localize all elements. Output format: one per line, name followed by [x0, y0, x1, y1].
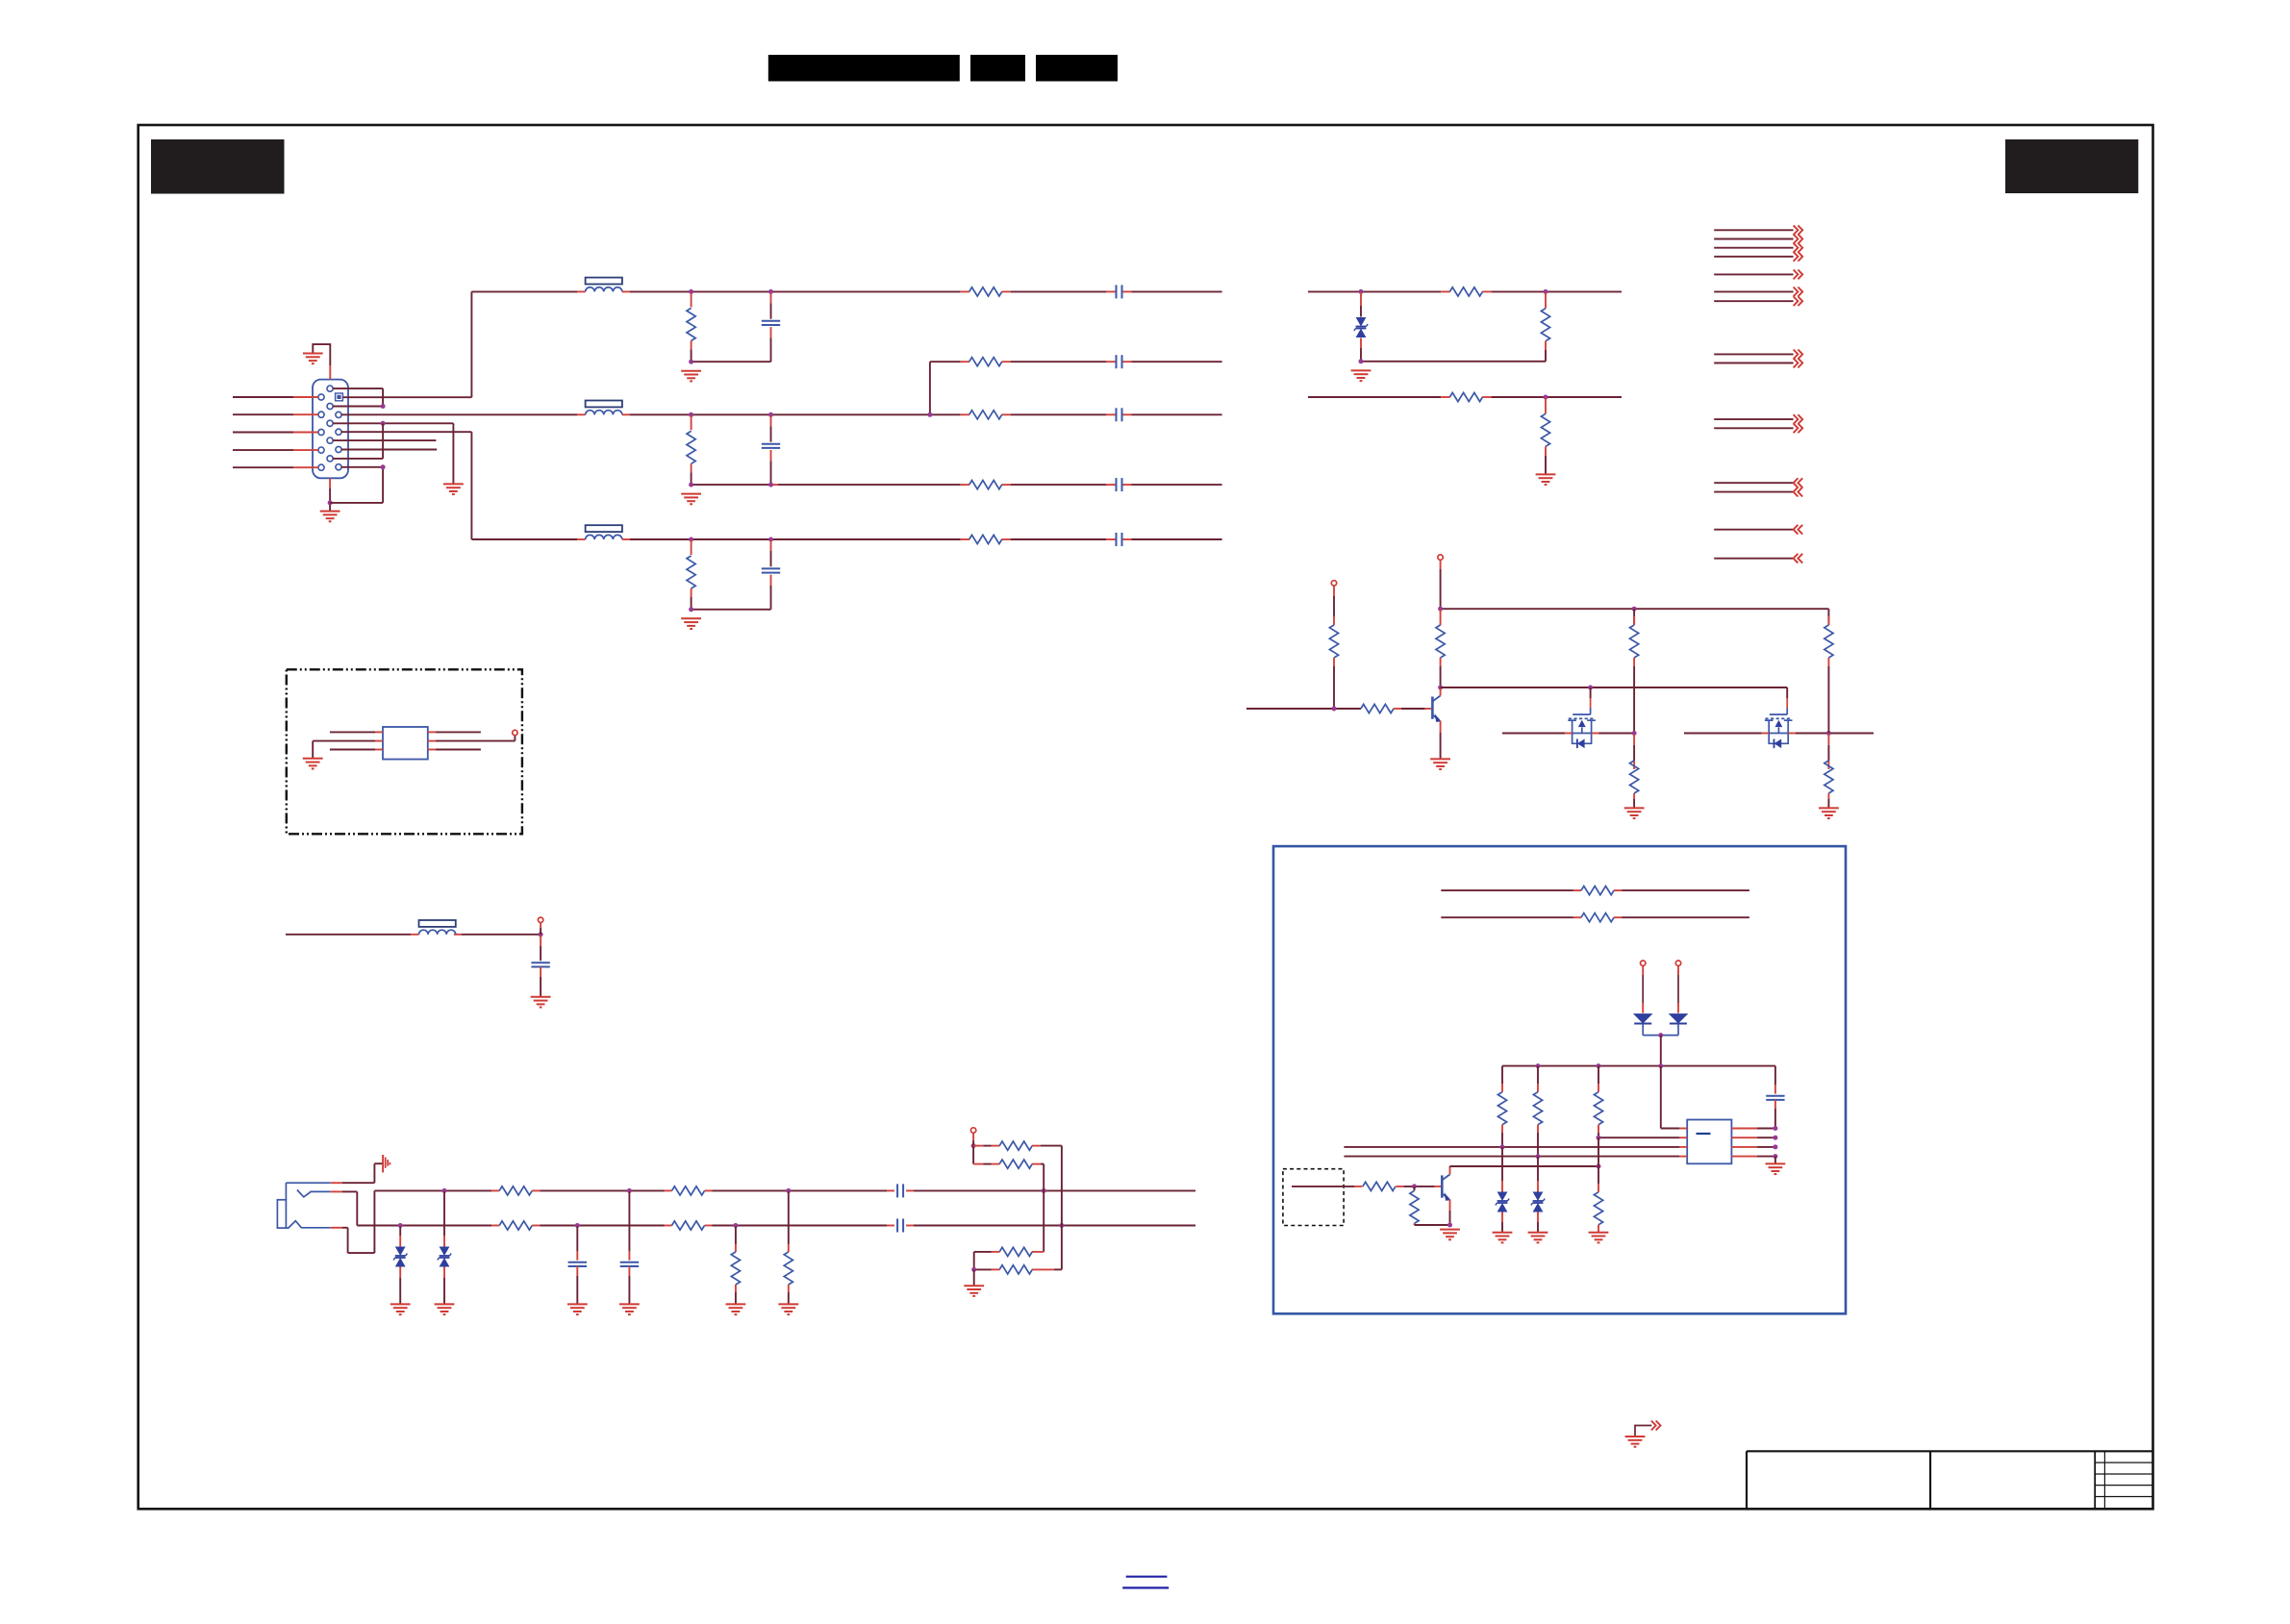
wire Q2 emitter rail [1415, 1224, 1450, 1226]
capacitor audio R series [897, 1219, 903, 1233]
wire J1 shell bottom [329, 478, 331, 511]
ground hsync [1351, 370, 1371, 381]
wire top rail [1441, 608, 1829, 610]
node G branch [927, 412, 932, 417]
ground audio c2 [619, 1304, 640, 1314]
wire port out9 [1714, 362, 1793, 364]
resistor mid pulldown [1630, 735, 1639, 809]
node audio vcc [971, 1143, 976, 1148]
wire hsync bottom [1361, 361, 1546, 362]
ground TVS DDC 1 [1493, 1233, 1513, 1243]
wire jack ring to L line [331, 1190, 375, 1253]
ground audio r1 [726, 1304, 746, 1314]
terminal 5V [538, 917, 542, 935]
resistor G-branch series [969, 358, 1002, 366]
resistor G series [969, 411, 1002, 419]
wire U2 pin4 [428, 749, 481, 751]
node hsync tvs [1359, 289, 1364, 294]
wire R filter bottom [692, 361, 771, 362]
node rail a [1438, 607, 1443, 612]
terminal DDC VCC 2 [1675, 961, 1680, 975]
resistor R series [969, 287, 1002, 296]
dashed source box [1283, 1169, 1344, 1226]
wire U3 pin2 left [1598, 1137, 1687, 1138]
border frame [138, 125, 2153, 1509]
node B-b [768, 537, 773, 542]
node 5V [539, 932, 543, 937]
node U3 r1 [1773, 1126, 1777, 1131]
wire U3 pin3 left [1344, 1146, 1687, 1148]
wire port in3 [1714, 529, 1793, 531]
connector J1 pins [318, 386, 341, 470]
node Q2 base [1412, 1184, 1417, 1188]
ground audio pulls [964, 1286, 984, 1296]
node G-a [689, 412, 693, 417]
port arrow out3 [1794, 243, 1803, 253]
node pin7 tie [381, 404, 386, 409]
node B-a [689, 537, 693, 542]
wire port out4 [1714, 256, 1793, 258]
wire Q4 drain [1788, 733, 1874, 735]
wire mid vertical [1630, 609, 1639, 733]
capacitor SOG series [1117, 478, 1122, 491]
port arrow in1 [1794, 478, 1803, 487]
node FET1 gate tap [1588, 686, 1593, 699]
resistor pulldown C [974, 1247, 1044, 1269]
resistor G shunt [687, 415, 695, 485]
top-right label redaction box [2005, 139, 2138, 193]
resistor DDC series 1 [1581, 887, 1614, 895]
wire R row [622, 290, 1222, 292]
resistor pullup B [973, 1160, 1044, 1183]
top-left label redaction box [151, 139, 285, 194]
node rail b [1632, 607, 1637, 612]
ground vsync [1536, 474, 1556, 485]
node audio r2 [786, 1188, 791, 1193]
wire DDC res line 2 [1441, 916, 1749, 918]
title text redaction bar 3 [1036, 55, 1118, 82]
node hsync pulldown [1544, 289, 1548, 294]
IC U3 box [1687, 1120, 1731, 1164]
wire audio L line [374, 1189, 1195, 1191]
wire hsync line [1308, 290, 1622, 292]
wires J1 left inputs [233, 397, 318, 467]
IC U2 box [383, 727, 428, 760]
wire U3 pin4 left [1344, 1156, 1687, 1158]
node audio gnd [971, 1267, 976, 1272]
resistor vsync pulldown [1541, 398, 1549, 474]
DDC enclosure [1273, 846, 1846, 1313]
node U3 r3 [1773, 1144, 1777, 1149]
wire 5V line [286, 934, 541, 936]
resistor DDC series 2 [1581, 913, 1614, 922]
resistor audio L series2 [672, 1187, 705, 1195]
ground VGA gnd-tie [443, 484, 464, 494]
wire port out2 [1714, 238, 1793, 240]
node pin15 tie [381, 464, 386, 469]
ground G filter [681, 494, 701, 505]
wire diode join [1643, 1035, 1678, 1037]
resistor audio shunt 1 [731, 1227, 740, 1305]
wire pull b join [1043, 1183, 1044, 1190]
wire U3 pin1 left [1661, 1066, 1687, 1129]
wire stub pin9 [333, 439, 436, 441]
node R tvs [398, 1223, 403, 1228]
terminal U2 pin5 [513, 730, 517, 735]
resistor pullup A [973, 1141, 1062, 1217]
wire Q4 source [1684, 733, 1769, 735]
ground DDC pulldown [1589, 1233, 1609, 1243]
wire port out7 [1714, 300, 1793, 302]
node bus c [1597, 1063, 1601, 1068]
wire Q2 base [1292, 1186, 1441, 1187]
wire port out10 [1714, 418, 1793, 420]
wire blue video (pin3) to bead [341, 432, 585, 539]
resistor B shunt [687, 540, 695, 610]
diode TVS DDC 2 [1531, 1157, 1545, 1233]
wire J1 shell top [313, 344, 330, 380]
resistor Q1 collector pullup [1436, 610, 1445, 687]
dash-dot enclosure [287, 669, 522, 834]
ground J1 bottom [320, 512, 340, 522]
node G-b [768, 412, 773, 417]
wire U2 pin1 [330, 731, 383, 733]
ferrite bead L4 [419, 920, 456, 935]
title text redaction bar 1 [768, 55, 960, 82]
capacitor B shunt [762, 540, 780, 610]
node R-b [768, 289, 773, 294]
wire G row [622, 413, 1222, 415]
ground mid pulldown [1624, 808, 1645, 818]
resistor DDC pullup 3 [1594, 1066, 1602, 1138]
wire pin6-pin7 tie [333, 388, 383, 406]
connector audio jack J2 [277, 1183, 330, 1228]
wire audio vcc node [972, 1140, 974, 1164]
capacitor audio L series [897, 1184, 903, 1197]
wire port out3 [1714, 247, 1793, 249]
ground Q2 [1440, 1230, 1460, 1240]
terminal VCC T2 [1438, 555, 1443, 569]
ground TVS DDC 2 [1528, 1233, 1548, 1243]
node R-a [689, 289, 693, 294]
diode TVS DDC 1 [1496, 1147, 1509, 1233]
wire U3 right down [1774, 1157, 1776, 1164]
wire port out5 [1714, 273, 1793, 275]
wire port in4 [1714, 558, 1793, 560]
ferrite bead L-B [586, 525, 622, 539]
wire port out6 [1714, 290, 1793, 292]
node G filter bottom b [768, 483, 773, 487]
resistor pulldown D [974, 1265, 1062, 1274]
capacitor audio shunt 1 [568, 1227, 587, 1305]
wire port out8 [1714, 353, 1793, 355]
wire audio gnd [973, 1269, 975, 1286]
wire DDC res line 1 [1441, 889, 1749, 891]
ground U3 [1766, 1163, 1786, 1174]
wire U2 pin3 [330, 749, 383, 751]
wire diode drop [1660, 1036, 1662, 1066]
wire pin15 shell tie [330, 467, 383, 503]
ferrite bead L-R [586, 278, 622, 292]
port arrow out9 [1794, 359, 1803, 368]
diode TVS audio L [438, 1191, 451, 1304]
wire port in2 [1714, 491, 1793, 493]
node U3 pin3 [1500, 1144, 1505, 1149]
terminal DDC VCC 1 [1641, 961, 1646, 975]
node Q2 emitter [1447, 1223, 1452, 1228]
node audio r1 [733, 1223, 738, 1228]
port arrow in4 [1794, 554, 1803, 563]
ferrite bead L-G [586, 401, 622, 415]
node U3 pin4 [1536, 1154, 1541, 1159]
resistor DDC pullup 2 [1533, 1066, 1542, 1157]
resistor Q2 base [1363, 1182, 1396, 1190]
wire stub pin14 [341, 449, 437, 451]
ground TVS R [390, 1304, 411, 1314]
node U3 pin2 [1597, 1136, 1601, 1140]
resistor T1 pullup [1329, 596, 1338, 709]
wire Q3 source [1502, 733, 1573, 735]
wire right vertical [1824, 609, 1833, 733]
terminal audio VCC [970, 1128, 975, 1140]
capacitor R shunt [762, 292, 780, 362]
diode D2 [1669, 975, 1689, 1036]
ground audio c1 [567, 1304, 588, 1314]
capacitor B series [1117, 533, 1122, 546]
port arrow out2 [1794, 235, 1803, 244]
wire U2 pin5 [428, 736, 516, 741]
port arrow in3 [1794, 525, 1803, 535]
resistor B series [969, 535, 1002, 543]
resistor right pulldown [1824, 735, 1833, 809]
port arrow out10 [1794, 414, 1803, 424]
node J1 shell-bottom junction [328, 500, 333, 505]
resistor hsync pulldown [1541, 292, 1549, 362]
node bus d [1658, 1063, 1663, 1068]
ground 5V filter [531, 997, 551, 1008]
capacitor DDC [1766, 1066, 1784, 1129]
wire green video (pin2) to bead [341, 413, 585, 415]
connector J1 body [313, 380, 348, 479]
resistor SOG series [969, 481, 1002, 489]
node audio c2 [627, 1188, 632, 1193]
node L pull [1042, 1188, 1046, 1193]
node bus b [1536, 1063, 1541, 1068]
wire B row [622, 538, 1222, 540]
capacitor R series [1117, 285, 1122, 298]
resistor audio R series1 [499, 1221, 532, 1230]
wires U3 right pins [1731, 1129, 1775, 1157]
transistor FET Q3 [1568, 698, 1596, 748]
wire port in1 [1714, 482, 1793, 484]
resistor Q1 base [1361, 704, 1431, 712]
wire B filter bottom [692, 609, 771, 611]
transistor FET Q4 [1765, 698, 1793, 748]
port arrow in2 [1794, 487, 1803, 497]
title block [1747, 1451, 2152, 1509]
node base tie [1332, 707, 1337, 712]
ground U2 pin2 [303, 759, 323, 769]
ground B filter [681, 618, 701, 629]
node diode join [1658, 1033, 1663, 1037]
port arrow out7 [1794, 296, 1803, 306]
resistor audio R series2 [672, 1221, 705, 1230]
wire red video (pin1) to bead [342, 291, 585, 397]
port arrow out8 [1794, 350, 1803, 360]
resistor audio shunt 2 [784, 1191, 793, 1304]
connector J1 pin-11 square [336, 393, 343, 401]
node gnd-tie [381, 421, 386, 426]
ground TVS L [435, 1304, 455, 1314]
resistor audio L series1 [499, 1187, 532, 1195]
title text redaction bar 2 [970, 55, 1025, 82]
port arrow out1 [1794, 225, 1803, 235]
node G filter bottom [689, 483, 693, 487]
wire port out11 [1714, 427, 1793, 429]
node vsync pulldown [1544, 395, 1548, 400]
wire U2 pin2 [313, 741, 383, 759]
wire G branch row [930, 362, 1222, 414]
node hsync bottom [1359, 359, 1364, 363]
wire port out1 [1714, 229, 1793, 231]
wire pin8 up-tie [333, 423, 383, 459]
wire jack tip to R line [331, 1191, 358, 1225]
ground R filter [681, 371, 701, 382]
footer link line 1 [1126, 1576, 1168, 1578]
wire pull d vert [1061, 1226, 1063, 1270]
wire G filter bottom / SOG row [692, 484, 1222, 486]
capacitor 5V filter [531, 936, 549, 997]
diode TVS hsync [1354, 292, 1368, 362]
node B filter bottom [689, 607, 693, 612]
wire T2 down [1440, 569, 1442, 609]
resistor hsync series [1449, 287, 1482, 296]
node mid-FET [1632, 731, 1637, 736]
resistor DDC pulldown [1594, 1137, 1602, 1232]
wire ground tie row [333, 423, 453, 484]
wire collector line [1450, 1165, 1599, 1167]
diode TVS audio R [393, 1227, 407, 1305]
resistor R shunt [687, 292, 695, 362]
wire gate bus [1441, 687, 1788, 698]
wire base line [1246, 708, 1361, 710]
transistor Q2 [1442, 1166, 1450, 1225]
wire Q3 drain [1592, 733, 1634, 735]
wire vsync line [1308, 396, 1622, 398]
terminal VCC T1 [1331, 581, 1336, 596]
wire pull c vert [1043, 1190, 1044, 1252]
port arrow out4 [1794, 252, 1803, 262]
capacitor G series [1117, 408, 1122, 421]
diode D1 [1633, 975, 1653, 1036]
footer link line 2 [1122, 1587, 1169, 1588]
wire audio R line [357, 1225, 1195, 1227]
wire U2 pin6 [428, 731, 481, 733]
ground reference arrow [1625, 1421, 1661, 1447]
node audio c1 [575, 1223, 580, 1228]
ground Q1 emitter [1430, 759, 1450, 769]
resistor Q2 bias [1410, 1187, 1419, 1225]
wire DDC bus [1502, 1065, 1775, 1067]
wire jack sleeve to chassis [331, 1163, 383, 1183]
ground J1 top [303, 354, 323, 364]
chassis ground jack [383, 1155, 390, 1172]
transistor Q1 [1432, 688, 1441, 759]
ground right pulldown [1819, 808, 1839, 818]
node right-FET [1826, 731, 1831, 736]
node R pull [1059, 1223, 1064, 1228]
port arrow out11 [1794, 423, 1803, 433]
ground audio r2 [778, 1304, 798, 1314]
resistor DDC pullup 1 [1497, 1066, 1506, 1147]
capacitor G-branch series [1117, 355, 1122, 368]
resistor vsync series [1449, 392, 1482, 401]
capacitor G shunt [762, 415, 780, 485]
node U3 r4 [1773, 1154, 1777, 1159]
port arrow out5 [1794, 270, 1803, 280]
node Q1 collector [1438, 686, 1443, 690]
wire pull a join [1061, 1217, 1063, 1226]
node L tvs [442, 1188, 447, 1193]
node collector tie [1597, 1164, 1601, 1169]
node R filter bottom [689, 360, 693, 364]
port arrow out6 [1794, 287, 1803, 297]
node U3 r2 [1773, 1136, 1777, 1140]
capacitor audio shunt 2 [620, 1191, 639, 1304]
